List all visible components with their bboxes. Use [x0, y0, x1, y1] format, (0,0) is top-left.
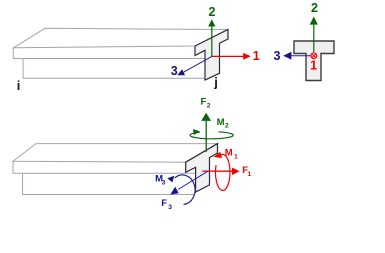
- force F2 (green, up): [205, 121, 207, 152]
- axis 3 (blue, down-left): [184, 56, 212, 72]
- beam top face: [13, 28, 228, 48]
- svg-text:F: F: [161, 198, 167, 209]
- moment M3 (blue circular arrow around axis 3): [175, 175, 195, 205]
- beam top face: [13, 144, 218, 163]
- axis 1 symbol (red, into page): [311, 53, 317, 59]
- svg-text:3: 3: [171, 64, 178, 78]
- T cross-section at j (sheared): [186, 144, 218, 193]
- svg-text:2: 2: [209, 5, 216, 19]
- svg-text:M: M: [217, 117, 225, 128]
- svg-text:i: i: [17, 78, 21, 93]
- svg-text:M: M: [225, 147, 233, 158]
- axis 1 (red, right): [212, 55, 244, 57]
- T cross-section at j (sheared): [195, 30, 228, 81]
- svg-text:2: 2: [311, 1, 318, 15]
- axis 2 (green, up): [211, 26, 213, 56]
- svg-text:j: j: [213, 75, 218, 90]
- svg-text:1: 1: [253, 49, 260, 63]
- svg-text:F: F: [201, 97, 207, 108]
- beam flange front face: [13, 48, 204, 59]
- T section outline: [294, 41, 334, 81]
- beam web front face: [23, 173, 196, 194]
- moment M2 (green ellipse arrow around axis 2): [190, 132, 233, 139]
- moment M1 (red ellipse arrow around axis 1): [215, 154, 230, 190]
- axis 3 arrow (blue): [291, 55, 311, 57]
- force F1 (red, right): [202, 170, 232, 172]
- svg-text:1: 1: [248, 171, 252, 178]
- svg-text:2: 2: [225, 123, 229, 130]
- svg-text:3: 3: [162, 179, 166, 186]
- svg-text:3: 3: [168, 204, 172, 211]
- beam web front face: [23, 59, 205, 79]
- axis 2 arrow (green): [313, 25, 315, 53]
- force F3 (blue, down-left): [178, 171, 209, 190]
- beam flange front face: [13, 161, 195, 173]
- svg-text:2: 2: [207, 103, 211, 110]
- svg-text:1: 1: [310, 59, 317, 73]
- svg-text:3: 3: [274, 49, 281, 63]
- svg-text:1: 1: [234, 154, 238, 161]
